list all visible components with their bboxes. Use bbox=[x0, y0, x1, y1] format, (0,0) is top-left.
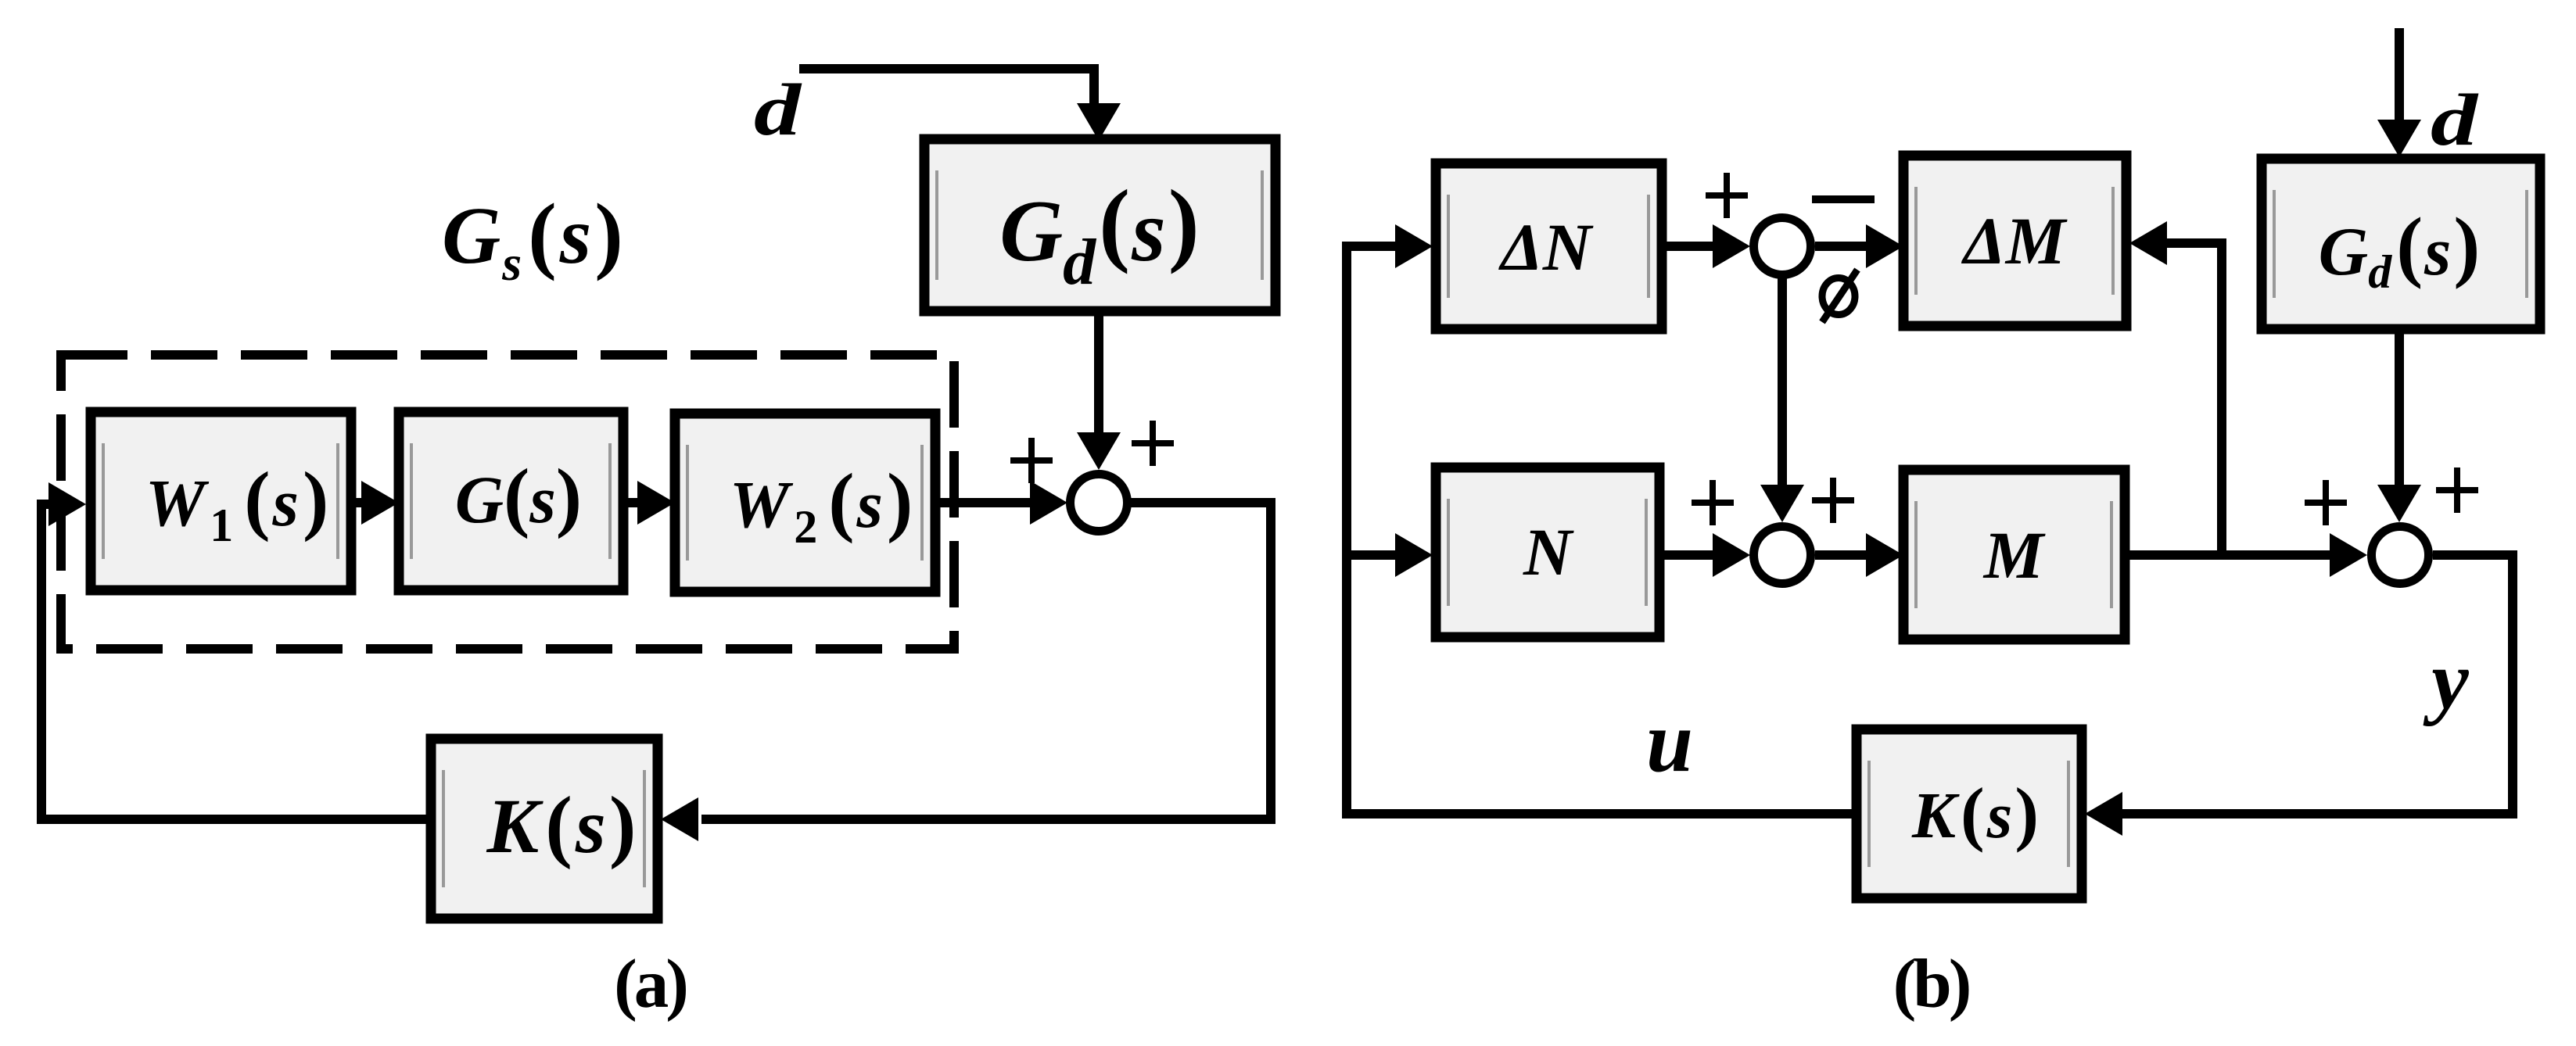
sign minus right of summing junction 1 (b) bbox=[1812, 195, 1875, 203]
block W1(s) bbox=[91, 412, 351, 590]
summing junction 3 (b) bbox=[2372, 527, 2429, 584]
wire K(s) (a) feedback to W1 input bbox=[41, 482, 431, 819]
dashed box around W1 G W2 bbox=[61, 355, 954, 649]
svg-text:(b): (b) bbox=[1893, 946, 1969, 1023]
svg-text:ΔN: ΔN bbox=[1498, 210, 1594, 285]
svg-text:G(s): G(s) bbox=[455, 453, 582, 539]
block Gd(s) (b) bbox=[2262, 159, 2540, 329]
block K(s) (a) bbox=[431, 739, 658, 919]
block K(s) (b) bbox=[1857, 729, 2082, 898]
sign + left of summing junction 1 (b) bbox=[1706, 173, 1748, 218]
svg-text:M: M bbox=[1982, 518, 2046, 593]
node label phi bbox=[1822, 270, 1857, 322]
svg-text:d: d bbox=[2431, 80, 2480, 161]
wire Gd(s) (b) down to summing junction 3 bbox=[2377, 329, 2421, 522]
sign + left of summing junction 3 (b) bbox=[2305, 480, 2347, 525]
svg-text:K(s): K(s) bbox=[486, 780, 637, 870]
svg-text:N: N bbox=[1523, 514, 1574, 589]
sign + left of summing junction 2 (b) bbox=[1692, 480, 1734, 525]
block DeltaM bbox=[1903, 156, 2126, 326]
wire W2 to summing junction (a) bbox=[935, 481, 1067, 525]
wire G to W2 bbox=[623, 481, 675, 525]
wire summing junction 1 to DeltaM bbox=[1815, 224, 1903, 268]
block M bbox=[1903, 470, 2125, 639]
svg-text:K(s): K(s) bbox=[1911, 773, 2039, 853]
sign + left of summing junction (a) bbox=[1010, 438, 1053, 483]
wire feedback left vertical and bottom (b) bbox=[1347, 224, 1857, 814]
svg-text:(a): (a) bbox=[614, 946, 686, 1023]
svg-text:Gd(s): Gd(s) bbox=[2319, 202, 2481, 298]
wire N to summing junction 2 (b) bbox=[1659, 533, 1750, 577]
block DeltaN bbox=[1436, 163, 1662, 329]
block N bbox=[1436, 467, 1659, 637]
wire Gd(s) down to summing junction (a) bbox=[1077, 311, 1121, 470]
summing junction 2 (b) bbox=[1754, 527, 1811, 584]
block W2(s) bbox=[675, 414, 935, 592]
wire W1 to G bbox=[351, 481, 399, 525]
wire M to summing junction 3 (b) bbox=[2125, 533, 2367, 577]
block G(s) bbox=[399, 412, 623, 590]
wire d input into Gd(s) (b) bbox=[2377, 28, 2421, 157]
svg-text:u: u bbox=[1646, 693, 1693, 790]
wire into DeltaM from right (b) bbox=[2129, 221, 2222, 555]
svg-text:Gs(s): Gs(s) bbox=[442, 186, 623, 291]
sign + right of summing junction (a) bbox=[1132, 421, 1174, 466]
svg-text:d: d bbox=[754, 70, 803, 151]
wire summing junction 1 down to summing junction 2 (b) bbox=[1760, 275, 1804, 522]
wire DeltaN to summing junction 1 (b) bbox=[1662, 224, 1750, 268]
block Gd(s) (a) bbox=[924, 139, 1275, 311]
wire summing junction 2 to M bbox=[1815, 533, 1903, 577]
summing junction 1 (b) bbox=[1754, 218, 1811, 275]
sign + right of summing junction 3 (b) bbox=[2436, 467, 2478, 513]
wire branch into N (b) bbox=[1347, 533, 1433, 577]
svg-text:ΔM: ΔM bbox=[1961, 203, 2068, 278]
wire d input into Gd(s) (a) bbox=[799, 69, 1121, 141]
wire summing junction 3 to K(s) (b) bbox=[2085, 555, 2513, 836]
summing junction (a) bbox=[1071, 475, 1128, 532]
wire summing junction (a) to K(s) (a) bbox=[661, 503, 1271, 841]
sign + right of summing junction 2 (b) bbox=[1812, 478, 1854, 523]
